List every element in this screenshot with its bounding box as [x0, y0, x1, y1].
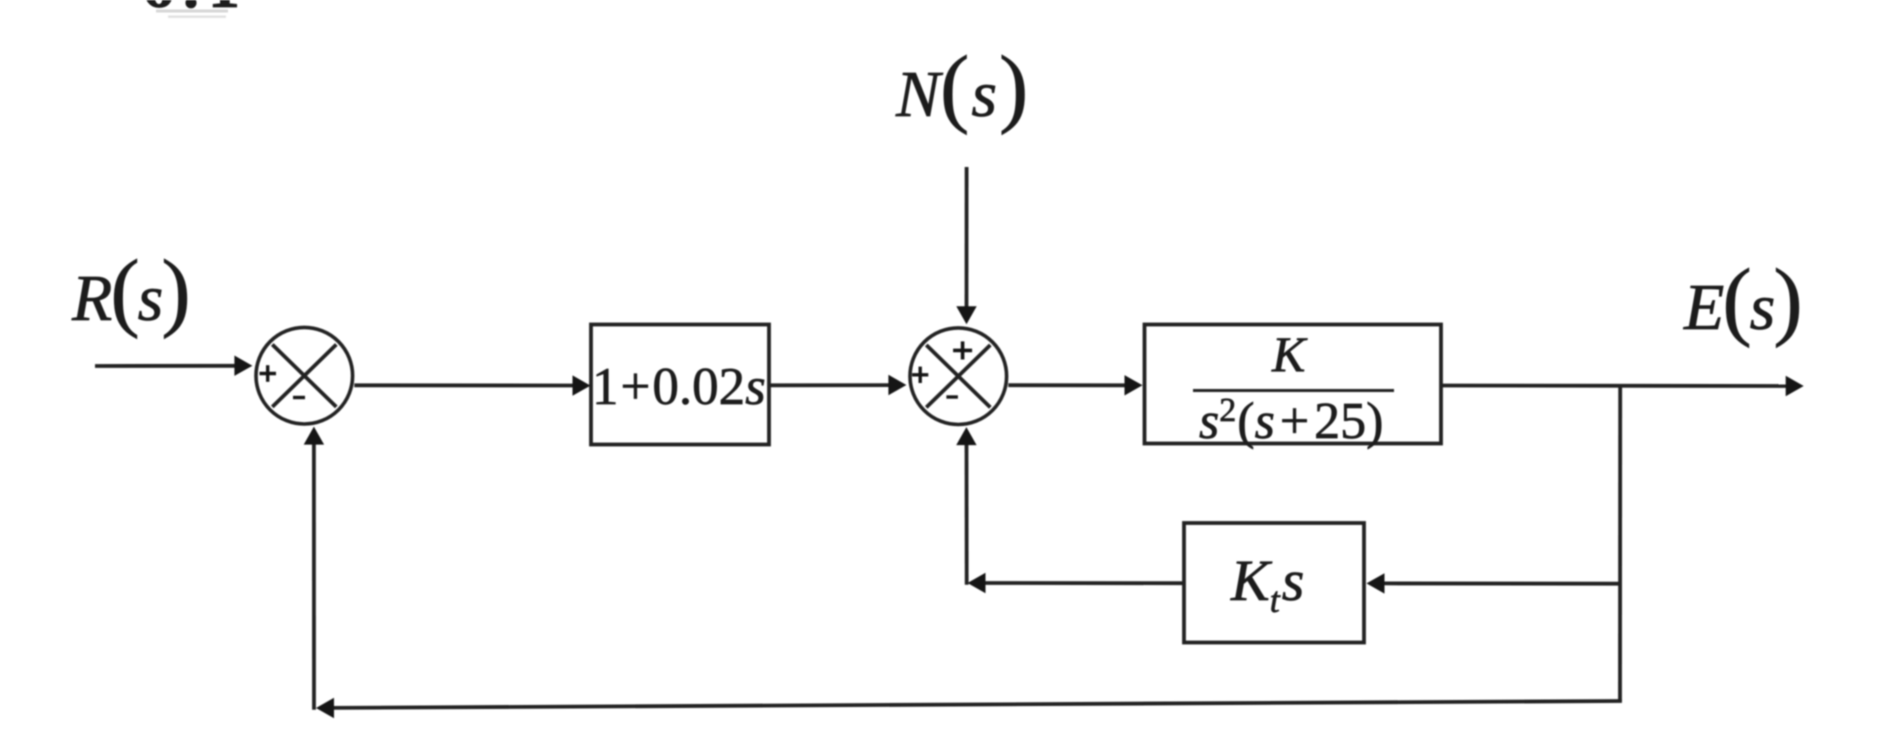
svg-text:N(s): N(s): [895, 39, 1028, 136]
wire output branch vertical: [1618, 386, 1622, 701]
block H1 box: [1184, 523, 1364, 643]
wire inner feedback vertical: [965, 445, 969, 585]
svg-text:R(s): R(s): [71, 243, 191, 340]
svg-text:Kts: Kts: [1230, 548, 1304, 620]
S1 plus sign: [260, 365, 277, 382]
wire R(s) input: [95, 364, 237, 368]
wire outer feedback bottom: [333, 701, 1622, 708]
S1 minus sign: [293, 396, 305, 399]
wire G1 to S2: [769, 383, 890, 387]
wire S2 to G2: [1008, 383, 1126, 387]
S1 cross: [272, 345, 336, 407]
block G2 box: [1145, 325, 1442, 444]
svg-text:K: K: [1271, 326, 1308, 382]
arrowhead at outer corner: [316, 698, 334, 718]
wire S1 to G1: [354, 383, 574, 387]
wire N(s) into S2: [965, 167, 969, 308]
wire inner feedback right segment: [1384, 582, 1620, 586]
summing junction S2: [910, 328, 1007, 425]
arrowhead at inner corner: [968, 573, 986, 593]
S2 plus sign left: [912, 367, 928, 383]
arrowhead into H1: [1367, 573, 1385, 593]
summing junction S1: [256, 327, 353, 424]
arrowhead output E(s): [1786, 376, 1804, 396]
S2 minus sign: [946, 395, 958, 398]
S2 plus sign top: [953, 341, 972, 359]
svg-text:E(s): E(s): [1683, 252, 1803, 349]
arrowhead into G2: [1125, 375, 1143, 395]
arrowhead into S2 from bottom: [956, 427, 976, 445]
arrowhead into G1: [573, 375, 591, 395]
wire output from G2 to E(s): [1441, 384, 1787, 388]
svg-text:1+0.02s: 1+0.02s: [592, 358, 766, 416]
block G1 box: [591, 325, 769, 445]
arrowhead into S2 from left: [888, 375, 906, 395]
S2 cross: [926, 345, 990, 407]
arrowhead into S2 from top: [956, 306, 976, 324]
arrowhead into S1: [234, 356, 252, 376]
svg-text:s2(s+25): s2(s+25): [1199, 392, 1383, 450]
G2 fraction bar: [1193, 389, 1394, 392]
arrowhead into S1 from bottom: [304, 427, 324, 445]
wire outer feedback vertical: [312, 445, 316, 710]
wire H1 to inner corner: [985, 581, 1184, 585]
faint smudge under 6.1: [156, 10, 228, 18]
